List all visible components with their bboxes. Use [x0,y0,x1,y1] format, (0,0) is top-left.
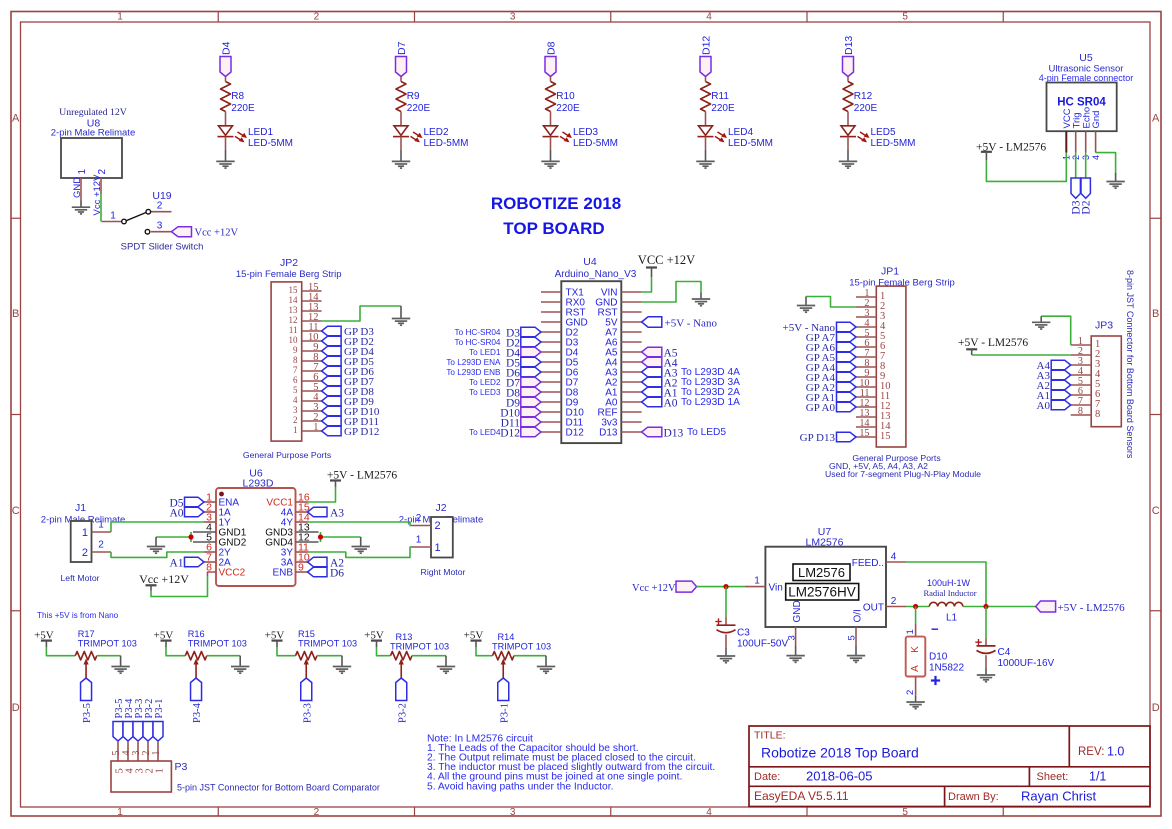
svg-text:2: 2 [157,201,163,212]
net flag D2 [1080,178,1092,215]
svg-text:L1: L1 [946,613,958,624]
svg-text:D8: D8 [546,41,558,55]
svg-text:220E: 220E [556,103,580,114]
power flag +5V - LM2576 at U6 VCC1 [327,470,397,488]
wire LED to ground [705,137,707,150]
ground [906,702,924,709]
svg-text:ROBOTIZE 2018: ROBOTIZE 2018 [491,194,621,213]
svg-text:A3: A3 [330,508,344,520]
pin JP3.5 [1071,376,1101,390]
junction dot D10 [913,604,918,609]
ground [1106,182,1124,189]
net flag GP A1 [806,392,856,404]
net flag +5V - LM2576 output [1036,601,1125,614]
pin JP2.11 [289,322,322,335]
pin JP1.9 [856,368,885,382]
pin U4 D3 (left) [541,338,579,349]
pin U6.7 2A [204,552,231,569]
pin U4 D11 (left) [541,418,584,429]
ground [717,656,735,663]
pin U6.3 1Y [204,512,231,529]
svg-text:2: 2 [82,547,88,559]
pin JP1.6 [856,338,885,352]
svg-text:P3-4: P3-4 [192,702,203,723]
svg-text:12: 12 [289,315,298,325]
connector JP3 8-pin JST [1091,320,1121,427]
pin P3.5 [111,741,125,774]
svg-text:REV:: REV: [1078,746,1104,758]
net flag D4 [220,41,233,76]
svg-text:220E: 220E [407,103,431,114]
svg-text:2018-06-05: 2018-06-05 [806,769,873,784]
svg-text:4: 4 [706,807,712,818]
pin JP2.1 [293,422,322,435]
pin U4 GND (left) [541,318,588,329]
net flag GP D9 [322,396,375,408]
pin JP2.8 [293,352,322,365]
pin U7.2 OUT [863,596,906,613]
wire OUT to L1 [906,606,929,608]
IC U4 Arduino_Nano_V3 [555,256,637,443]
net flag GP D7 [322,376,375,388]
svg-text:TRIMPOT 103: TRIMPOT 103 [492,641,551,651]
svg-text:1.0: 1.0 [1107,745,1124,759]
pin U4 3v3 (right) [601,418,641,429]
net flag D4 [506,347,541,359]
pin U6.8 VCC2 [206,562,245,579]
wiper arrow R14 [501,659,506,679]
svg-text:LED3: LED3 [573,127,598,138]
svg-text:1: 1 [98,520,104,531]
junction dot C4 [983,604,988,609]
svg-text:Used for 7-segment Plug-N-Play: Used for 7-segment Plug-N-Play Module [825,469,981,479]
svg-text:15: 15 [289,285,299,295]
net flag D13 [843,36,856,77]
wiper arrow R15 [304,659,309,679]
svg-text:To LED3: To LED3 [469,388,501,397]
wire L1 to output [963,606,1036,608]
svg-text:2: 2 [435,520,441,532]
svg-text:4: 4 [1091,155,1101,160]
ground [1032,322,1050,329]
pin U4 GND (right) [595,298,641,309]
wiper arrow R13 [399,659,404,679]
power flag +5V for R14 [464,630,484,648]
wire JP3.1 to ground [1041,316,1071,345]
svg-text:ENB: ENB [272,568,293,579]
net flag A4 [1037,360,1071,372]
svg-text:10: 10 [289,335,299,345]
svg-text:2: 2 [905,690,916,695]
svg-text:Sheet:: Sheet: [1037,771,1069,783]
pin U6.12 GND4 [265,532,318,549]
svg-text:9: 9 [293,345,298,355]
svg-text:B: B [1152,308,1159,320]
pin U4 D7 (left) [541,378,579,389]
svg-text:P3-3: P3-3 [302,703,313,723]
net flag GP A4 [806,362,856,374]
connector JP2 15-pin Female Berg Strip [236,257,342,441]
pin U4 RST (left) [541,308,586,319]
net flag P3-2 [143,699,155,741]
svg-text:D: D [12,702,20,714]
net flag D6 [506,367,541,379]
svg-text:100UF-50V: 100UF-50V [737,639,788,650]
pin U6.4 GND1 [193,522,247,539]
LED LED2 LED-5MM [393,126,469,149]
svg-text:LED-5MM: LED-5MM [728,138,773,149]
LED LED3 LED-5MM [543,126,619,149]
pin U6.2 1A [204,502,231,519]
power flag +5V for R15 [265,630,285,648]
wire U6 3Y to J2.1 [308,547,412,557]
svg-text:Vcc +12V: Vcc +12V [195,228,239,239]
pin JP1.10 [856,378,891,392]
svg-text:TRIMPOT 103: TRIMPOT 103 [298,638,357,648]
svg-text:Rayan Christ: Rayan Christ [1021,789,1097,804]
pin U6.13 GND3 [265,522,318,539]
svg-text:Radial Inductor: Radial Inductor [923,588,976,598]
svg-text:J1: J1 [75,502,86,514]
svg-text:220E: 220E [231,103,255,114]
pin JP3.1 [1071,336,1101,350]
svg-text:15-pin Female Berg Strip: 15-pin Female Berg Strip [236,269,342,280]
svg-text:1: 1 [117,12,123,23]
net flag A2 [642,377,678,389]
power flag +5V for R17 [34,630,54,648]
svg-text:D13: D13 [599,428,618,439]
ground [847,656,865,663]
svg-text:5: 5 [902,807,908,818]
capacitor C3 100UF-50V [715,618,788,649]
svg-text:A: A [1152,113,1160,125]
net flag GP D3 [322,326,375,338]
pin U6.6 2Y [204,542,231,559]
switch U19 SPDT Slider Switch [102,190,204,253]
svg-text:5: 5 [902,12,908,23]
net flag D5 [506,357,541,369]
wire Echo to D2 flag [1085,153,1087,178]
svg-text:LED-5MM: LED-5MM [248,138,293,149]
pin U5.2 Trig [1075,131,1077,152]
net flag D8 [545,41,558,76]
svg-text:8: 8 [293,355,298,365]
connector J2 2-pin Male Relimate [399,502,483,558]
svg-text:D7: D7 [396,41,408,55]
label box LM2576HV [786,584,859,601]
svg-text:3: 3 [510,807,516,818]
title block [749,726,1150,807]
ground [977,675,995,682]
svg-text:1: 1 [82,527,88,539]
pin J1.1 [92,520,112,533]
pin U4 A7 (right) [605,328,641,339]
net flag A3 [1037,370,1071,382]
pin U4 REF (right) [598,408,642,419]
pin U4 D10 (left) [541,408,584,419]
wire J1.2 to U6 2Y [111,552,204,557]
svg-text:1N5822: 1N5822 [929,663,964,674]
pin U7.5 O/I [847,609,864,655]
pin U6.1 ENA [204,492,239,509]
svg-text:6: 6 [293,375,298,385]
svg-text:15: 15 [880,431,891,442]
svg-text:11: 11 [289,325,298,335]
pin JP2.3 [293,402,322,415]
svg-text:GND: GND [792,600,803,622]
svg-text:R12: R12 [854,91,873,102]
svg-text:P3-2: P3-2 [397,703,408,723]
power flag +5V for R13 [364,630,384,648]
svg-text:To L293D ENB: To L293D ENB [446,368,501,377]
ground [111,667,129,674]
net flag GP A5 [806,352,856,364]
svg-text:J2: J2 [435,502,446,514]
net flag GP A6 [806,342,856,354]
svg-text:JP1: JP1 [881,266,899,278]
svg-text:1: 1 [313,422,318,433]
svg-text:General Purpose Ports: General Purpose Ports [243,450,332,460]
capacitor C4 1000UF-16V [975,639,1054,669]
svg-text:4: 4 [706,12,712,23]
pin U4 D4 (left) [541,348,579,359]
wire resistor to LED [847,112,849,126]
pin P3.2 [141,741,155,774]
wire J1.1 to U6 1Y [111,522,204,532]
wire +5V to R16 [166,647,185,656]
svg-text:Arduino_Nano_V3: Arduino_Nano_V3 [555,269,637,280]
svg-text:D12: D12 [500,428,520,440]
svg-text:15: 15 [859,428,869,439]
pin U6.9 ENB [272,562,307,579]
wire Vcc to Vin [697,586,745,588]
wire JP2.12 to ground [322,306,401,321]
net flag D13 [642,427,684,439]
resistor R15 TRIMPOT 103 [296,629,358,660]
pin U7.4 FEED [852,552,906,569]
svg-text:To LED5: To LED5 [687,427,726,438]
svg-text:Left Motor: Left Motor [60,573,99,583]
pin U4 D2 (left) [541,328,579,339]
svg-text:P3: P3 [175,761,188,773]
pin U4 D9 (left) [541,398,579,409]
svg-text:8: 8 [1095,409,1100,420]
wire D13 to R12 [847,77,849,82]
svg-text:100uH-1W: 100uH-1W [927,578,971,588]
junction dot C3 [723,584,728,589]
svg-text:HC SR04: HC SR04 [1057,97,1106,109]
svg-text:P3-1: P3-1 [499,703,510,723]
pin JP3.3 [1071,356,1101,370]
schematic title ROBOTIZE 2018 TOP BOARD [491,194,621,238]
wire D7 to R9 [400,77,402,82]
svg-text:VCC2: VCC2 [219,568,246,579]
wire LED to ground [225,137,227,150]
net flag D7 [506,377,541,389]
wire Vcc from U8.2 to U19.1 [100,194,102,222]
ground [797,306,815,313]
svg-text:D13: D13 [664,428,684,440]
pin JP3.7 [1071,396,1101,410]
regulator U7 LM2576 [765,526,886,627]
pin U4 A6 (right) [605,338,641,349]
ground [147,547,165,554]
svg-text:To LED2: To LED2 [469,378,501,387]
pin P3.1 [151,741,165,774]
svg-text:2: 2 [891,596,897,607]
svg-text:To L293D 1A: To L293D 1A [681,397,740,408]
LED LED5 LED-5MM [840,126,916,149]
svg-text:1: 1 [754,576,760,587]
svg-text:K: K [910,646,921,653]
svg-text:Unregulated 12V: Unregulated 12V [59,107,127,118]
pin U5.1 VCC [1065,131,1067,152]
svg-text:2: 2 [98,540,104,551]
svg-text:+5V - LM2576: +5V - LM2576 [1058,602,1126,614]
net flag Vcc +12V input [632,581,697,594]
svg-text:JP2: JP2 [280,257,298,269]
pin U4 VIN (right) [601,288,642,299]
pin U4 A0 (right) [605,398,641,409]
svg-text:B: B [12,308,19,320]
pin J2.1 [411,535,431,548]
wire GND3-GND4 junction [321,532,361,542]
pin U6.15 4A [281,502,310,519]
pin U5.4 Gnd [1095,131,1097,152]
svg-text:C4: C4 [998,647,1011,658]
svg-text:LED-5MM: LED-5MM [424,138,469,149]
net flag D8 [506,387,541,399]
net flag GP D5 [322,356,375,368]
wire U4 GND to ground [642,282,701,303]
ground [541,161,559,168]
svg-text:Vcc +12V: Vcc +12V [632,583,676,594]
svg-text:A0: A0 [169,508,183,520]
svg-text:GP D12: GP D12 [344,426,379,438]
wire D10 to ground [915,677,917,696]
power flag +5V - LM2576 at JP3.2 [958,337,1028,355]
net flag D10 [500,407,541,419]
svg-text:LM2576: LM2576 [798,565,845,580]
net flag GP A7 [806,332,856,344]
svg-text:D: D [1152,702,1160,714]
svg-text:D2: D2 [1080,200,1092,214]
net flag A1 [642,387,678,399]
svg-text:2-pin Male Relimate: 2-pin Male Relimate [51,128,135,139]
wire Gnd to ground [1096,153,1116,173]
pin JP1.15 [856,428,891,442]
resistor R17 TRIMPOT 103 [75,629,137,660]
ground [692,299,710,306]
resistor R8 220E [221,82,255,114]
svg-text:+5V - Nano: +5V - Nano [665,318,718,330]
wire R15 to ground [317,655,342,657]
pin JP2.14 [289,292,322,305]
svg-text:SPDT Slider Switch: SPDT Slider Switch [121,242,204,253]
svg-text:GP A0: GP A0 [806,402,836,414]
svg-text:D10: D10 [929,652,948,663]
wire JP1.2 to ground [806,297,856,308]
wiper arrow R16 [193,659,198,679]
pin U4 D5 (left) [541,358,579,369]
svg-text:1000UF-16V: 1000UF-16V [998,658,1055,669]
net flag GP D2 [322,336,374,348]
svg-text:2: 2 [293,415,298,425]
svg-text:P3-5: P3-5 [82,703,93,723]
svg-text:A: A [910,665,921,672]
net flag D12 [700,36,713,77]
svg-text:To LED4: To LED4 [469,428,501,437]
svg-text:R11: R11 [711,91,729,102]
wire resistor to LED [225,112,227,126]
resistor R11 220E [701,82,735,114]
net flag Vcc +12V at U19.3 [172,227,239,239]
svg-text:TRIMPOT 103: TRIMPOT 103 [78,638,137,648]
pin JP1.8 [856,358,885,372]
resistor R14 TRIMPOT 103 [492,632,551,660]
svg-text:5: 5 [847,635,858,640]
svg-text:A0: A0 [664,398,678,410]
wire LED to ground [400,137,402,150]
svg-text:Robotize 2018 Top Board: Robotize 2018 Top Board [761,745,919,761]
pin U6.11 3Y [281,542,309,559]
svg-text:A1: A1 [169,558,183,570]
pin U8.1 GND [80,178,82,201]
svg-text:O/I: O/I [852,609,863,622]
svg-text:2: 2 [97,169,108,175]
net flag GP A0 [806,402,856,414]
net flag D9 [506,397,541,409]
net flag P3-1 [498,678,511,723]
wire GND1-GND2 junction [156,532,191,542]
pin JP1.1 [856,288,885,302]
pin JP2.4 [293,392,322,405]
pin U4 TX1 (left) [541,288,584,299]
net flag A2 [1037,380,1071,392]
svg-text:LED1: LED1 [248,127,273,138]
pin J1.2 [92,540,112,553]
svg-text:U5: U5 [1079,52,1093,64]
svg-text:To L293D ENA: To L293D ENA [446,358,501,367]
resistor R12 220E [843,82,877,114]
pin JP2.10 [289,332,322,345]
net flag GP D6 [322,366,375,378]
IC U6 L293D [216,468,296,587]
net flag A4 [642,357,678,369]
svg-text:9: 9 [298,562,304,574]
wire R17 to ground [97,655,121,657]
wire C3 to ground [725,635,727,649]
wire +5V to JP3.2 [972,354,1071,356]
pin JP2.12 [289,312,322,325]
pin U6.16 VCC1 [266,492,310,509]
pin U4 D6 (left) [541,368,579,379]
net flag +5V - Nano [783,322,856,334]
net flag GP A4 [806,372,856,384]
net flag A1 [169,557,204,569]
wire node to C4 [985,607,987,639]
resistor R9 220E [396,82,430,114]
net flag P3-1 [153,699,165,741]
svg-text:3: 3 [293,405,298,415]
pin JP1.7 [856,348,885,362]
svg-text:To HC-SR04: To HC-SR04 [455,328,501,337]
wire +5V to R13 [377,647,391,656]
net flag D2 [506,337,541,349]
ground [537,667,555,674]
ground [72,207,90,214]
pin U4 D12 (left) [541,428,584,439]
